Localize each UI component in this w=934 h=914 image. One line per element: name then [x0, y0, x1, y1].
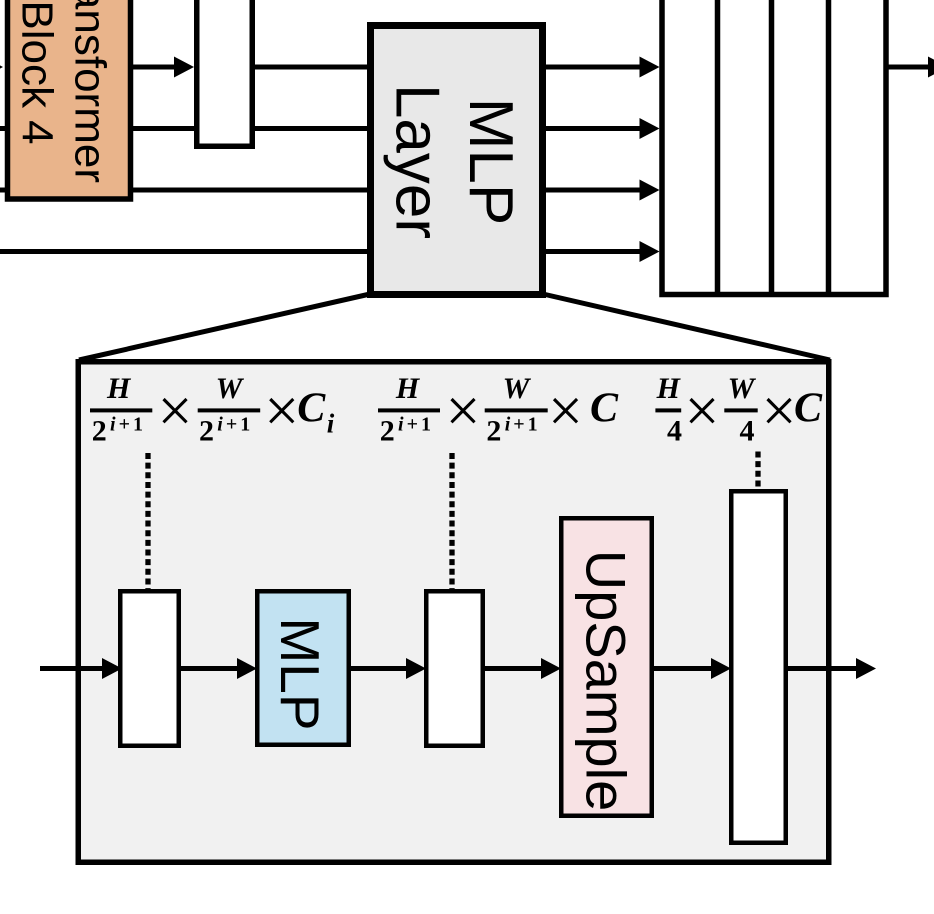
svg-text:Transformer: Transformer [66, 0, 115, 183]
svg-text:C: C [297, 386, 326, 432]
svg-text:C: C [794, 386, 823, 432]
svg-text:Layer: Layer [383, 84, 452, 239]
svg-text:i+1: i+1 [505, 414, 541, 436]
svg-text:i+1: i+1 [110, 414, 146, 436]
svg-text:MLP: MLP [456, 98, 525, 225]
svg-text:2: 2 [199, 415, 214, 448]
svg-text:×: × [685, 378, 720, 446]
svg-text:W: W [728, 372, 757, 405]
svg-text:W: W [503, 372, 532, 405]
svg-text:4: 4 [667, 415, 682, 448]
svg-text:i+1: i+1 [398, 414, 434, 436]
svg-text:UpSample: UpSample [575, 550, 638, 811]
svg-text:H: H [395, 372, 421, 405]
svg-text:2: 2 [486, 415, 501, 448]
svg-text:4: 4 [740, 415, 755, 448]
svg-text:Block 4: Block 4 [13, 0, 62, 144]
svg-text:×: × [264, 378, 299, 446]
svg-text:×: × [548, 378, 583, 446]
svg-text:i: i [327, 409, 335, 439]
svg-text:×: × [446, 378, 481, 446]
svg-text:i+1: i+1 [217, 414, 253, 436]
svg-text:2: 2 [92, 415, 107, 448]
svg-text:2: 2 [380, 415, 395, 448]
svg-text:H: H [106, 372, 132, 405]
svg-text:×: × [762, 378, 797, 446]
svg-text:W: W [216, 372, 245, 405]
svg-text:MLP: MLP [269, 617, 331, 730]
svg-text:×: × [158, 378, 193, 446]
svg-text:C: C [590, 386, 619, 432]
svg-text:H: H [656, 372, 682, 405]
